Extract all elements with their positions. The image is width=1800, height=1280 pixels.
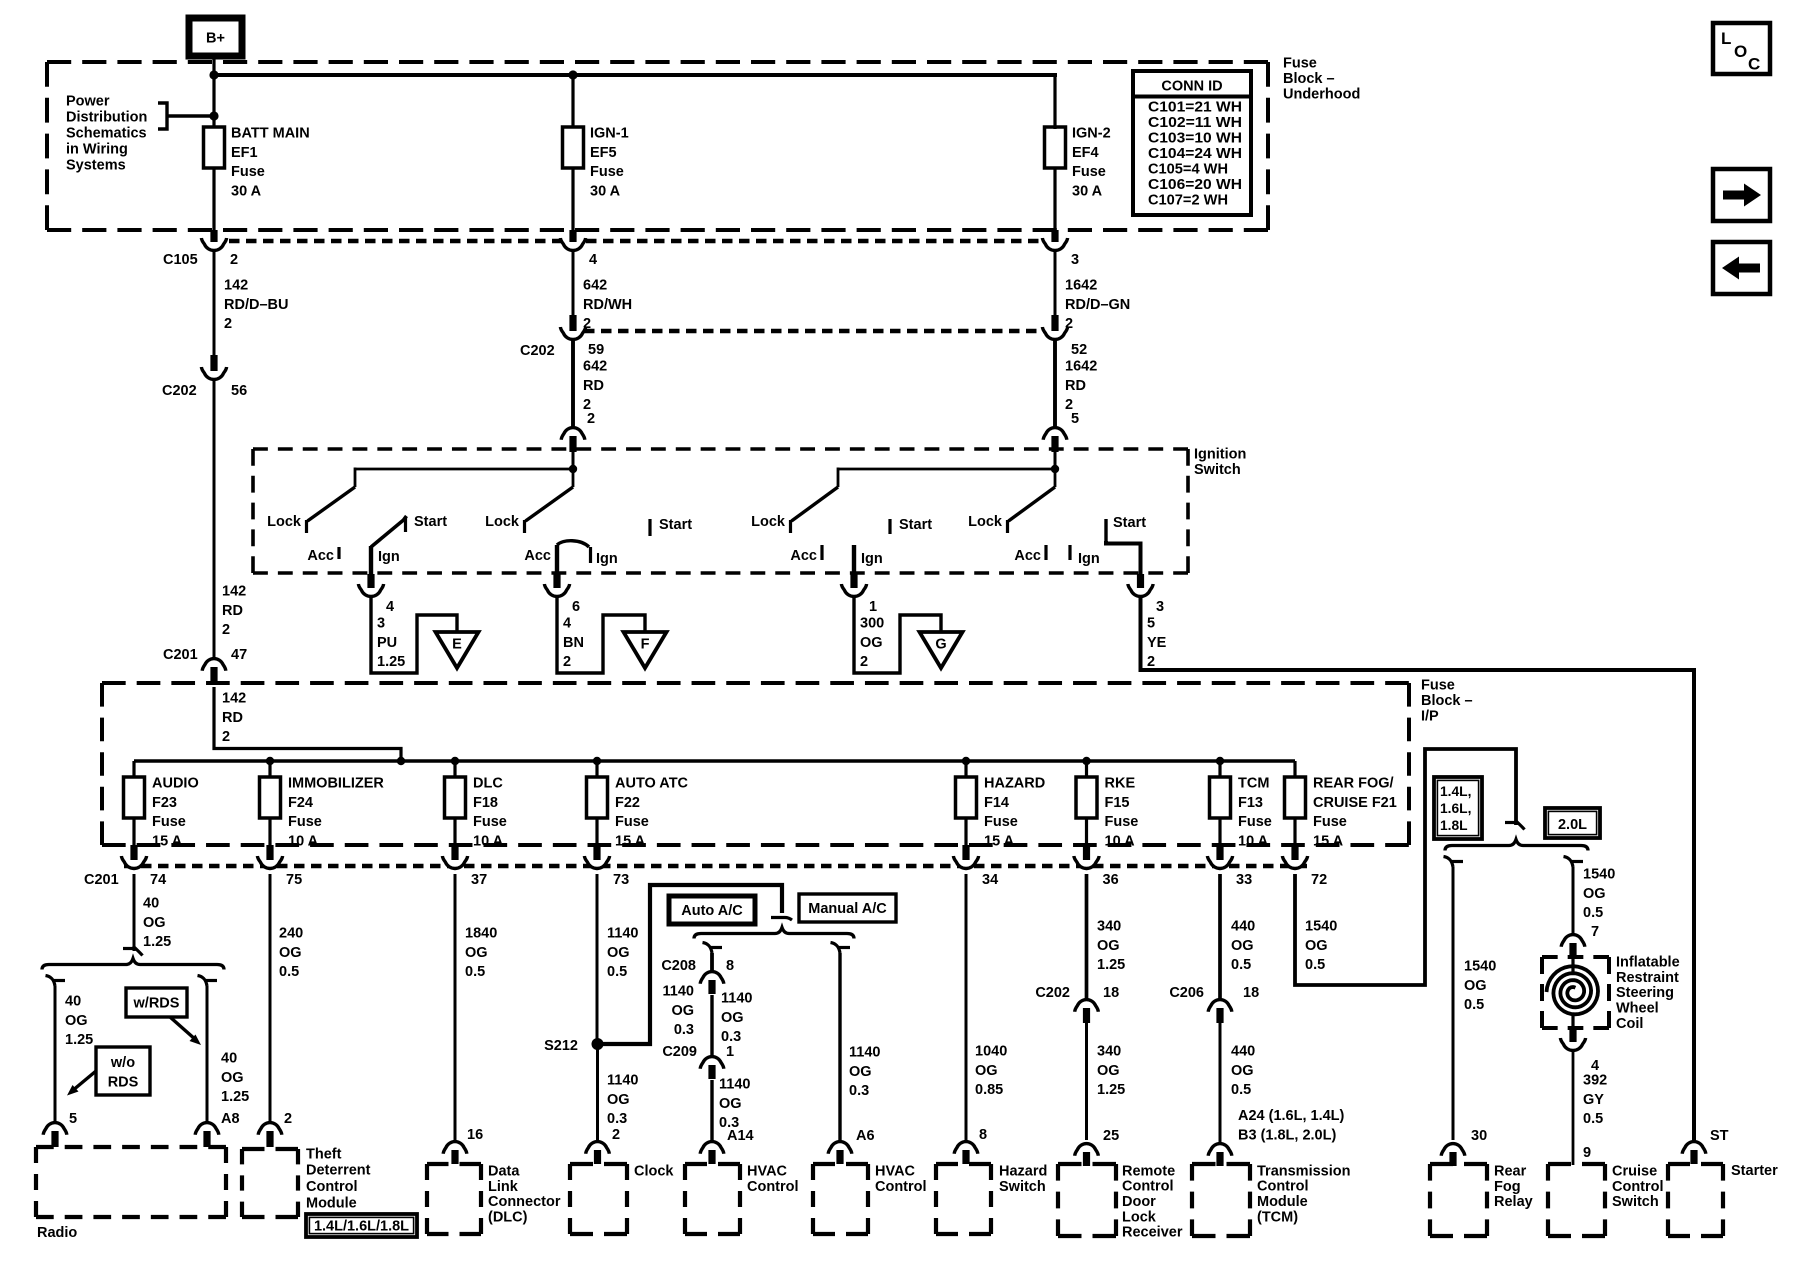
svg-text:OG: OG [719,1096,742,1112]
splice node S212 [592,1038,604,1050]
svg-text:B+: B+ [206,31,225,47]
connector C201 pin 75 [257,856,282,869]
svg-text:Hazard: Hazard [999,1163,1047,1179]
svg-text:642: 642 [583,277,607,293]
ignition lock contact 4 [1006,520,1009,533]
svg-text:1.4L,: 1.4L, [1440,784,1471,799]
svg-text:1642: 1642 [1065,277,1097,293]
svg-text:72: 72 [1311,872,1327,888]
connector HVAC pin A6 [828,1142,852,1154]
svg-text:33: 33 [1236,872,1252,888]
svg-text:(DLC): (DLC) [488,1210,528,1226]
callout box w/RDS [126,988,187,1017]
svg-text:142: 142 [224,277,248,293]
svg-text:Radio: Radio [37,1225,77,1241]
wire bus to fuse F14 [964,761,967,778]
wire into coil [1571,956,1574,972]
svg-text:Fog: Fog [1494,1179,1521,1195]
svg-text:BATT MAIN: BATT MAIN [231,125,310,141]
svg-text:Link: Link [488,1179,519,1195]
AC auto branch hook [703,943,713,954]
svg-text:340: 340 [1097,918,1121,934]
splice symbol F [624,632,667,668]
ignition output wire 2 [555,545,559,574]
wire S212 to clock [596,1044,599,1140]
svg-text:Switch: Switch [1612,1194,1659,1210]
svg-text:0.5: 0.5 [1583,905,1603,921]
connector C202 pin 56 [201,367,226,380]
svg-text:RKE: RKE [1105,775,1136,791]
callout box manual A/C [799,894,896,922]
svg-text:Module: Module [1257,1194,1308,1210]
svg-text:3: 3 [1156,599,1164,615]
svg-text:Switch: Switch [999,1179,1046,1195]
node power distribution tap [209,111,218,120]
wire bus to fuse F15 [1085,761,1088,778]
svg-text:Acc: Acc [1014,548,1041,564]
svg-text:RD/D–BU: RD/D–BU [224,297,288,313]
svg-text:Fuse: Fuse [288,814,322,830]
ignition feed line IGN-2 [838,468,1055,471]
svg-text:1.8L: 1.8L [1440,818,1468,833]
svg-text:DLC: DLC [473,775,503,791]
svg-text:Acc: Acc [307,548,334,564]
connector DLC pin 16 [443,1142,467,1154]
svg-text:1.4L/1.6L/1.8L: 1.4L/1.6L/1.8L [314,1219,409,1235]
svg-text:Manual A/C: Manual A/C [808,901,887,917]
svg-text:OG: OG [1231,938,1254,954]
svg-text:30 A: 30 A [1072,184,1103,200]
svg-text:RD: RD [222,603,243,619]
svg-text:10 A: 10 A [1105,834,1136,850]
svg-text:3: 3 [377,615,385,631]
svg-text:F: F [641,637,650,653]
svg-text:PU: PU [377,635,397,651]
svg-text:Control: Control [747,1179,799,1195]
cruise branch hook [1564,857,1574,868]
wire to splice F [557,596,645,673]
node ignition IGN-1 junction [569,465,577,473]
wire fuse F14 to C201 [964,818,967,845]
connector C105 pin 2 [201,238,226,251]
svg-text:300: 300 [860,615,884,631]
svg-text:BN: BN [563,635,584,651]
svg-text:Fuse: Fuse [231,164,265,180]
connector receiver pin 25 [1075,1144,1099,1156]
ignition switch dashed box [253,447,1188,451]
svg-text:Cruise: Cruise [1612,1163,1657,1179]
svg-text:Fuse: Fuse [1421,677,1455,693]
connector C209 pin 1 [700,1057,724,1069]
wire into ignition switch [572,450,575,470]
svg-text:1.25: 1.25 [1097,1082,1125,1098]
svg-text:Deterrent: Deterrent [306,1163,371,1179]
svg-text:AUDIO: AUDIO [152,775,199,791]
svg-text:1540: 1540 [1305,918,1337,934]
wire 142 RD into IP [214,687,401,761]
svg-text:IMMOBILIZER: IMMOBILIZER [288,775,384,791]
connector rear fog pin 30 [1441,1144,1465,1156]
svg-text:OG: OG [465,945,488,961]
svg-text:15 A: 15 A [1313,834,1344,850]
svg-text:Module: Module [306,1195,357,1211]
svg-text:F14: F14 [984,795,1009,811]
wire C206 to TCM [1219,1023,1222,1142]
svg-text:1.25: 1.25 [1097,957,1125,973]
ignition acc contact 3 [820,545,823,560]
svg-text:0.5: 0.5 [1305,957,1325,973]
wire bus to fuse F24 [268,761,271,778]
svg-text:Control: Control [875,1179,927,1195]
svg-text:ST: ST [1710,1128,1729,1144]
svg-text:Connector: Connector [488,1194,561,1210]
fuse F22 AUTO ATC [587,777,608,818]
svg-text:142: 142 [222,690,246,706]
svg-text:2: 2 [1147,654,1155,670]
wire fuse EF4 to C105 pin3 [1053,168,1056,230]
connector C201 pin 37 [442,856,467,869]
ignition pole1 wiper to lock [308,487,356,521]
node ignition IGN-2 junction [1051,465,1059,473]
wire 1642 RD/D-GN [1054,252,1057,315]
svg-text:2: 2 [860,654,868,670]
svg-text:YE: YE [1147,635,1167,651]
wire 440 OG from pin33 [1218,874,1222,998]
svg-text:40: 40 [65,993,81,1009]
wire 340 OG from pin36 [1085,874,1089,998]
svg-text:1140: 1140 [607,1072,638,1088]
fuse F24 IMMOBILIZER [260,777,281,818]
connector ignition out 3 [1128,584,1153,596]
svg-text:52: 52 [1071,342,1087,358]
svg-text:B3 (1.8L, 2.0L): B3 (1.8L, 2.0L) [1238,1128,1336,1144]
connector row C105 dotted line [229,239,1044,244]
svg-text:3: 3 [1071,252,1079,268]
svg-text:OG: OG [1097,938,1120,954]
svg-text:1540: 1540 [1464,958,1496,974]
svg-text:47: 47 [231,647,247,663]
wire 142 RD to C201 [213,380,216,657]
svg-text:C101=21 WH: C101=21 WH [1148,99,1242,115]
connector radio pin A8 [195,1123,219,1135]
svg-text:392: 392 [1583,1072,1607,1088]
svg-text:2: 2 [563,654,571,670]
wire C209 to A14 [710,1080,713,1140]
svg-text:RD/WH: RD/WH [583,297,632,313]
svg-text:2: 2 [587,411,595,427]
ignition arm acc to ign 2 [557,541,589,547]
svg-text:C208: C208 [661,958,696,974]
svg-text:C105: C105 [163,252,198,268]
svg-text:Acc: Acc [790,548,817,564]
svg-text:1.25: 1.25 [65,1032,93,1048]
svg-text:1.25: 1.25 [377,654,405,670]
svg-text:Ign: Ign [596,551,618,567]
svg-text:EF1: EF1 [231,145,258,161]
svg-text:0.5: 0.5 [1464,997,1484,1013]
svg-text:OG: OG [607,945,630,961]
connector ignition out 6 [544,584,569,596]
svg-text:Fuse: Fuse [590,164,624,180]
svg-text:2: 2 [284,1111,292,1127]
wire bus to fuse CRUISE F21 [1293,761,1296,778]
svg-text:18: 18 [1243,985,1259,1001]
svg-text:Receiver: Receiver [1122,1225,1183,1241]
svg-text:OG: OG [1231,1063,1254,1079]
svg-text:HAZARD: HAZARD [984,775,1045,791]
svg-text:C104=24 WH: C104=24 WH [1148,146,1242,162]
starter dashed box [1668,1162,1723,1166]
node IP bus at F13 [1216,757,1224,765]
connector ignition out 4 [358,584,383,596]
engine split wire end curl [1505,821,1517,824]
remote door lock receiver dashed box [1058,1162,1116,1166]
svg-text:Lock: Lock [1122,1209,1157,1225]
wire to splice E [371,596,457,673]
svg-text:OG: OG [860,635,883,651]
svg-text:Start: Start [414,514,447,530]
svg-text:Auto A/C: Auto A/C [681,903,743,919]
connector ignition feed 5 [1043,428,1067,440]
svg-text:RD: RD [583,378,604,394]
svg-text:1.25: 1.25 [143,934,171,950]
svg-text:Schematics: Schematics [66,125,147,141]
connector coil pin 7 [1561,935,1585,947]
ignition pole2 riser [572,469,575,487]
svg-text:0.3: 0.3 [674,1022,694,1038]
svg-text:Coil: Coil [1616,1016,1643,1032]
fuse CRUISE F21 REAR FOG/ [1285,777,1306,818]
svg-text:Acc: Acc [524,548,551,564]
wire into ignition switch right [1054,450,1057,470]
svg-text:OG: OG [1305,938,1328,954]
svg-text:EF4: EF4 [1072,145,1099,161]
ignition arm ign to start 1 [371,516,407,547]
svg-text:Switch: Switch [1194,462,1241,478]
svg-text:G: G [935,637,946,653]
svg-text:1040: 1040 [975,1043,1007,1059]
svg-text:I/P: I/P [1421,708,1439,724]
ignition pole4 riser [1054,469,1057,487]
wire manual AC to A6 [838,953,841,1140]
svg-text:C102=11 WH: C102=11 WH [1148,115,1242,131]
wire 1140 OG from pin73 [596,874,599,1044]
svg-text:C209: C209 [662,1044,697,1060]
wire 142 RD/D-BU segment [213,252,216,355]
clock module dashed box [570,1162,627,1166]
connector C201 pin 74 [121,856,146,869]
wire 1540 OG cruise [1572,867,1575,933]
svg-text:A24 (1.6L, 1.4L): A24 (1.6L, 1.4L) [1238,1108,1345,1124]
svg-text:5: 5 [1147,615,1155,631]
svg-text:F15: F15 [1105,795,1130,811]
svg-text:w/o: w/o [110,1055,135,1071]
svg-text:OG: OG [65,1013,88,1029]
svg-text:EF5: EF5 [590,145,617,161]
ignition pole3 riser [837,468,840,488]
connector C201 pin 47 [202,659,226,671]
wire 1540 OG rear fog [1452,867,1455,1140]
connector HVAC pin A14 [700,1142,724,1154]
svg-text:Control: Control [1612,1179,1664,1195]
wire 1040 OG from pin34 [965,874,968,1140]
svg-text:Ign: Ign [1078,551,1100,567]
conn id table [1133,71,1251,215]
wire 1840 OG from pin37 [454,874,457,1140]
svg-text:1140: 1140 [721,990,752,1006]
svg-text:F24: F24 [288,795,313,811]
connector coil out pin 4 [1560,1038,1585,1050]
fuse EF1 BATT MAIN [204,127,225,168]
svg-text:IGN-1: IGN-1 [590,125,629,141]
bus bar IP [134,759,1295,763]
svg-text:Fuse: Fuse [1105,814,1139,830]
wire out of coil [1571,1013,1574,1028]
svg-text:Fuse: Fuse [1238,814,1272,830]
svg-text:1642: 1642 [1065,358,1097,374]
wire fuse F23 to C201 [132,818,135,845]
fuse F15 RKE [1076,777,1097,818]
svg-text:4: 4 [563,615,571,631]
svg-text:L: L [1721,29,1731,48]
node IP feed [397,757,405,765]
svg-text:Lock: Lock [485,514,520,530]
svg-text:TCM: TCM [1238,775,1269,791]
node IP bus at F14 [962,757,970,765]
ignition acc contact 1 [337,547,340,559]
connector ignition out 1 [841,584,866,596]
svg-text:7: 7 [1591,924,1599,940]
callout box 1.4L 1.6L 1.8L [1434,777,1482,839]
svg-text:O: O [1734,42,1747,61]
svg-text:1840: 1840 [465,925,497,941]
svg-text:OG: OG [671,1003,694,1019]
wire to splice G [854,596,941,673]
svg-text:C105=4 WH: C105=4 WH [1148,161,1228,177]
svg-text:C202: C202 [162,383,197,399]
wire bus to fuse F22 [595,761,598,778]
svg-text:Block –: Block – [1421,693,1473,709]
wire bus to fuse F13 [1218,761,1221,778]
icon back arrow box [1713,242,1770,294]
svg-text:74: 74 [150,872,166,888]
svg-text:73: 73 [613,872,629,888]
svg-text:9: 9 [1583,1145,1591,1161]
ignition pole4 wiper to lock [1009,487,1056,521]
wire bus to fuse EF1 [212,75,215,128]
svg-text:1140: 1140 [719,1076,750,1092]
svg-text:Steering: Steering [1616,985,1674,1001]
ignition lock contact 2 [523,520,526,533]
svg-text:CRUISE F21: CRUISE F21 [1313,795,1397,811]
wire 642 RD/WH [572,252,575,315]
svg-text:C202: C202 [520,343,555,359]
svg-text:Relay: Relay [1494,1194,1533,1210]
svg-text:OG: OG [279,945,302,961]
ignition pole3 wiper to lock [792,487,839,521]
svg-text:0.85: 0.85 [975,1082,1003,1098]
svg-text:59: 59 [588,342,604,358]
connector C201 pin 36 [1074,856,1099,869]
splice symbol E [436,632,479,668]
svg-text:A6: A6 [856,1128,875,1144]
svg-text:4: 4 [589,252,597,268]
svg-text:Start: Start [899,517,932,533]
svg-text:0.5: 0.5 [607,964,627,980]
svg-text:440: 440 [1231,918,1255,934]
connector C105 pin 3 [1042,238,1067,250]
svg-text:10 A: 10 A [473,834,504,850]
connector clock pin 2 [586,1142,610,1154]
node IP bus at F24 [266,757,274,765]
wire auto AC to C208 [710,953,714,970]
engine split brace [1445,840,1588,851]
svg-text:Wheel: Wheel [1616,1001,1659,1017]
connector C201 pin 33 [1207,856,1232,868]
ignition output wire 3 [852,545,856,574]
svg-text:Fuse: Fuse [1283,55,1317,71]
connector C105 pin 4 [560,238,585,250]
svg-text:RDS: RDS [108,1075,139,1091]
fuse F14 HAZARD [956,777,977,818]
connector C201 pin 73 [584,856,609,868]
svg-text:OG: OG [975,1063,998,1079]
svg-text:2: 2 [224,316,232,332]
svg-text:Door: Door [1122,1194,1156,1210]
coil spiral [1547,966,1599,1014]
svg-text:16: 16 [467,1127,483,1143]
callout box w/o RDS [96,1047,150,1095]
wire bus drop to IGN-2 fuse [1053,75,1056,129]
node IP bus at F18 [451,757,459,765]
svg-text:37: 37 [471,872,487,888]
svg-text:Fuse: Fuse [1313,814,1347,830]
svg-text:Ign: Ign [861,551,883,567]
svg-text:10 A: 10 A [288,834,319,850]
svg-text:F13: F13 [1238,795,1263,811]
svg-text:CONN ID: CONN ID [1161,79,1222,95]
svg-text:A8: A8 [221,1111,240,1127]
svg-text:REAR FOG/: REAR FOG/ [1313,775,1394,791]
arrow w/o RDS to left branch [72,1071,96,1091]
radio wire end curl [123,947,135,950]
svg-text:Underhood: Underhood [1283,86,1360,102]
svg-text:40: 40 [221,1050,237,1066]
radio module dashed box [36,1145,226,1149]
svg-text:30 A: 30 A [590,184,621,200]
ignition start contact 1 [404,518,407,532]
svg-text:10 A: 10 A [1238,834,1269,850]
wire fuse F18 to C201 [453,818,456,845]
HVAC control module dashed box 1 [685,1162,740,1166]
svg-text:Fuse: Fuse [1072,164,1106,180]
svg-text:1140: 1140 [607,925,638,941]
svg-text:2: 2 [230,252,238,268]
svg-text:Remote: Remote [1122,1163,1175,1179]
connector C201 pin 34 [953,856,978,869]
svg-text:0.3: 0.3 [849,1083,869,1099]
svg-text:Fuse: Fuse [615,814,649,830]
svg-text:C202: C202 [1035,985,1070,1001]
wire S212 branch to AC [598,885,783,1044]
connector hazard pin 8 [954,1142,978,1154]
wire 40 OG from pin74 [133,874,136,951]
AC split brace [694,928,854,939]
svg-text:1: 1 [726,1044,734,1060]
svg-text:8: 8 [726,958,734,974]
svg-text:OG: OG [1583,886,1606,902]
svg-text:440: 440 [1231,1043,1255,1059]
